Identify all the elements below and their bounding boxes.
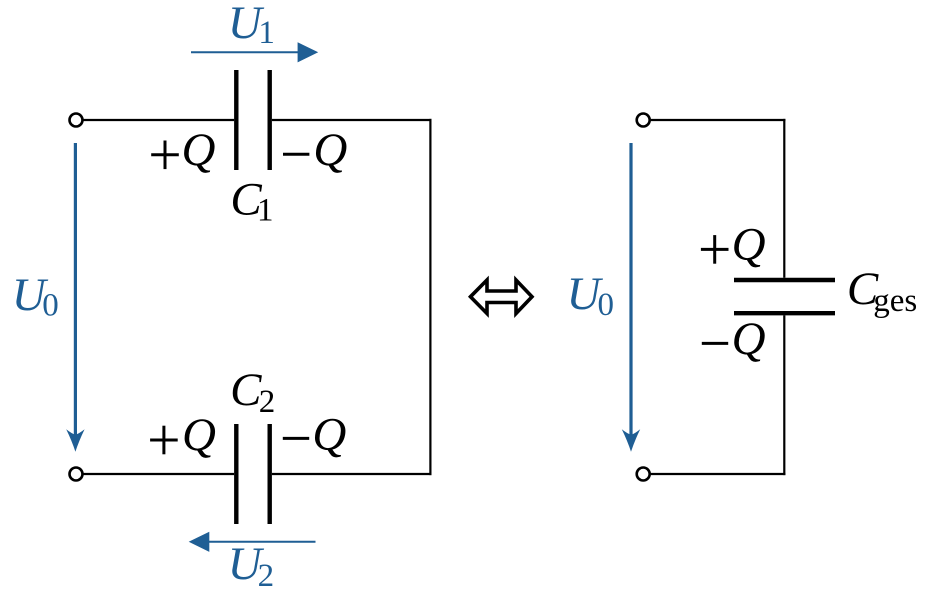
svg-text:Q: Q — [182, 409, 216, 461]
voltage arrow U2 — [189, 532, 316, 552]
capacitor C2 plates — [236, 424, 269, 524]
svg-text:Q: Q — [313, 124, 347, 176]
wire left-loop bottom-right segment — [272, 473, 432, 475]
label U2 — [228, 538, 275, 594]
svg-text:Q: Q — [312, 409, 346, 461]
svg-text:ges: ges — [873, 283, 917, 319]
wire left-loop top-left segment — [84, 119, 235, 121]
capacitor C1 label — [230, 174, 273, 229]
label +Q at C1 — [151, 124, 215, 176]
terminal top-left — [70, 114, 83, 127]
voltage arrow U0 left — [66, 143, 84, 452]
svg-text:Q: Q — [732, 313, 766, 365]
wire right-loop bottom segment — [651, 473, 786, 475]
svg-text:Q: Q — [732, 219, 766, 271]
wire right-loop top segment — [651, 119, 786, 121]
label -Q at C1 — [283, 124, 347, 176]
wire right-loop right side upper — [783, 119, 785, 278]
svg-text:2: 2 — [258, 558, 275, 594]
voltage arrow U1 — [191, 42, 318, 62]
svg-text:C: C — [230, 364, 262, 416]
capacitor C2 label — [230, 364, 275, 420]
label -Q at Cges — [702, 313, 766, 365]
label +Q at C2 — [150, 409, 216, 461]
equivalence arrow — [471, 280, 533, 314]
terminal right-loop bottom — [637, 468, 650, 481]
capacitor C1 plates — [236, 70, 269, 170]
label +Q at Cges — [701, 219, 766, 271]
wire left-loop top-right segment — [272, 119, 432, 121]
capacitor Cges plates — [734, 280, 835, 313]
terminal right-loop top — [637, 114, 650, 127]
label -Q at C2 — [283, 409, 347, 461]
voltage arrow U0 right — [622, 143, 640, 452]
terminal bottom-left — [70, 468, 83, 481]
svg-text:1: 1 — [257, 193, 274, 229]
wire left-loop bottom-left segment — [84, 473, 235, 475]
label U0 left — [12, 269, 59, 323]
svg-text:1: 1 — [258, 15, 275, 51]
svg-text:0: 0 — [598, 287, 615, 323]
svg-text:Q: Q — [182, 124, 216, 176]
svg-text:0: 0 — [42, 287, 59, 323]
svg-text:2: 2 — [259, 384, 276, 420]
capacitor Cges label — [847, 263, 917, 319]
wire right-loop right side lower — [783, 315, 785, 475]
wire left-loop right side — [429, 119, 431, 475]
label U1 — [228, 0, 275, 51]
label U0 right — [567, 268, 615, 323]
